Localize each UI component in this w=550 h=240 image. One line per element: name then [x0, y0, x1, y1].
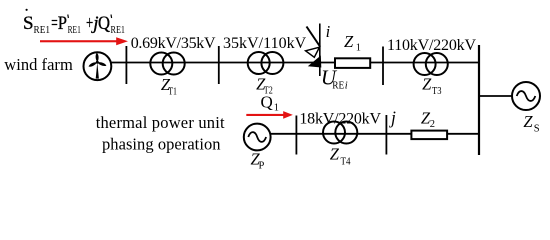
- svg-text:P: P: [58, 13, 67, 34]
- svg-text:T3: T3: [432, 86, 442, 97]
- svg-text:110kV/220kV: 110kV/220kV: [387, 37, 476, 54]
- svg-text:Q: Q: [98, 13, 110, 34]
- svg-text:RE1: RE1: [68, 25, 81, 36]
- svg-text:1: 1: [356, 43, 361, 54]
- svg-text:T4: T4: [341, 157, 352, 168]
- svg-text:RE: RE: [332, 81, 344, 92]
- svg-text:+: +: [86, 13, 93, 34]
- svg-text:S: S: [23, 13, 34, 34]
- svg-text:18kV/220kV: 18kV/220kV: [299, 111, 381, 128]
- svg-text:wind farm: wind farm: [4, 55, 73, 74]
- svg-text:1: 1: [274, 103, 279, 114]
- svg-text:i: i: [345, 81, 348, 92]
- svg-text:2: 2: [430, 119, 435, 130]
- svg-text:0.69kV/35kV: 0.69kV/35kV: [131, 35, 216, 52]
- svg-text:Z: Z: [330, 145, 340, 164]
- svg-text:Z: Z: [523, 112, 533, 131]
- svg-text:Z: Z: [344, 32, 354, 51]
- svg-text:thermal power unit: thermal power unit: [96, 113, 225, 132]
- svg-text:T2: T2: [264, 86, 273, 97]
- svg-text:RE1: RE1: [34, 25, 51, 36]
- svg-text:j: j: [389, 107, 396, 127]
- svg-text:T1: T1: [168, 86, 177, 97]
- svg-text:Z: Z: [422, 74, 432, 93]
- svg-text:phasing operation: phasing operation: [102, 134, 221, 153]
- svg-text:RE1: RE1: [111, 25, 126, 36]
- svg-text:i: i: [326, 22, 331, 41]
- svg-text:P: P: [259, 160, 265, 171]
- svg-text:35kV/110kV: 35kV/110kV: [223, 35, 307, 52]
- svg-text:S: S: [534, 123, 540, 134]
